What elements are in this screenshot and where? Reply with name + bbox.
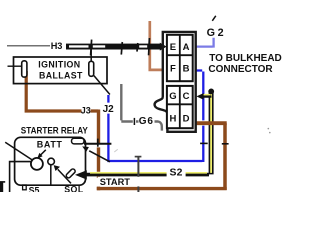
starter relay box xyxy=(15,137,86,185)
arrowhead S2 to relay lug xyxy=(75,170,87,179)
diagonal wire into BATT circle xyxy=(5,142,32,160)
svg-text:BALLAST: BALLAST xyxy=(39,70,83,80)
wire H3 thin lead xyxy=(7,45,50,47)
wire stub into C with yellow xyxy=(203,94,210,96)
svg-text:S5: S5 xyxy=(29,185,40,192)
wire brown from ballast to J3 xyxy=(25,71,99,111)
wire brown bottom run xyxy=(97,187,227,190)
svg-text:E: E xyxy=(170,42,176,53)
BATT lug xyxy=(72,138,85,144)
tick 1 on H3 xyxy=(91,40,92,56)
wire brown from D terminal xyxy=(196,121,227,125)
wire violet A to G2 xyxy=(196,38,214,48)
tick 4 on H3 at tan crossing xyxy=(148,38,151,55)
arrow wire from blue J2 corner to relay terminal xyxy=(89,151,110,162)
tick on G6 wire xyxy=(133,118,135,125)
svg-text:G6: G6 xyxy=(139,116,154,127)
wire yellow S2 horizontal run xyxy=(86,173,209,177)
arrow BATT to circle xyxy=(40,150,46,156)
arrow tick above G2 xyxy=(212,16,216,21)
tick 2 on H3 xyxy=(121,42,122,55)
svg-text:SOL: SOL xyxy=(64,185,84,192)
L wire to BATT circle xyxy=(10,162,31,192)
wire yellow S2 vertical from C junction xyxy=(209,91,214,174)
svg-text:START: START xyxy=(100,177,131,187)
BATT terminal circle xyxy=(31,158,43,170)
arrowhead into C xyxy=(196,93,203,100)
connector lower grid xyxy=(167,86,193,128)
svg-text:F: F xyxy=(170,63,176,74)
ballast terminal left xyxy=(22,61,27,77)
wire blue J2 ballast-to-relay and to B xyxy=(107,71,203,163)
svg-text:BATT: BATT xyxy=(37,139,63,149)
svg-text:STARTER RELAY: STARTER RELAY xyxy=(21,125,88,136)
wire lug to blue xyxy=(84,143,111,145)
svg-text:G2: G2 xyxy=(207,27,227,39)
label S2 xyxy=(167,167,186,178)
svg-text:B: B xyxy=(183,63,190,74)
wire SOL down xyxy=(50,165,52,185)
wire tan stub to F xyxy=(150,21,164,70)
svg-text:S2: S2 xyxy=(170,167,183,178)
wire dark vertical at START box xyxy=(137,156,139,192)
junction dot C xyxy=(208,89,214,95)
tick 3 on H3 xyxy=(136,43,139,52)
tick on brown right vertical xyxy=(222,143,229,145)
lead from H3 down to ballast right terminal xyxy=(90,47,92,62)
svg-text:D: D xyxy=(183,113,190,124)
wire gray G6 xyxy=(121,84,162,131)
tick on brown at lug wire xyxy=(97,139,99,147)
ignition ballast box xyxy=(14,57,108,84)
wire brown left vertical down past BATT lug and START xyxy=(97,110,100,191)
svg-text:H3: H3 xyxy=(51,41,63,51)
wire diagonal ballast to J2 xyxy=(94,76,110,95)
start lug (slanted) xyxy=(65,168,76,179)
wire brown right vertical to D xyxy=(223,123,227,190)
svg-text:J2: J2 xyxy=(103,104,115,115)
svg-text:J3: J3 xyxy=(81,106,91,116)
svg-text:C: C xyxy=(183,91,190,102)
label START xyxy=(98,177,140,187)
tick atop dark vertical xyxy=(135,156,142,158)
svg-text:CONNECTOR: CONNECTOR xyxy=(208,64,273,75)
corner bracket bottom-left xyxy=(0,181,5,183)
bulkhead connector shell xyxy=(155,32,196,132)
SOL terminal circle xyxy=(48,158,55,165)
svg-text:G: G xyxy=(169,91,176,102)
label S5 with bracket xyxy=(23,185,27,190)
svg-text:IGNITION: IGNITION xyxy=(38,60,80,70)
connector upper grid xyxy=(167,35,193,81)
svg-text:A: A xyxy=(183,42,190,53)
wire diagonal SOL arrow xyxy=(58,169,71,183)
speck marks xyxy=(268,128,270,130)
arrowhead into E xyxy=(160,43,167,51)
faint scratch xyxy=(114,149,117,152)
svg-text:H: H xyxy=(169,113,176,124)
tick on blue vertical xyxy=(200,142,208,144)
svg-text:TO BULKHEAD: TO BULKHEAD xyxy=(209,53,282,64)
wire H3 thick bus xyxy=(66,44,161,50)
ballast lead left xyxy=(8,65,23,67)
ballast terminal right xyxy=(89,61,94,76)
